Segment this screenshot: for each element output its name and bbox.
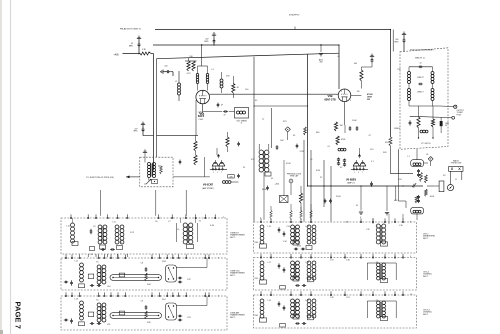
svg-text:V6 6CN7: V6 6CN7 xyxy=(203,184,214,187)
svg-text:LT? 40? DL: LT? 40? DL xyxy=(421,143,431,145)
svg-text:PHONO SW: PHONO SW xyxy=(451,163,462,165)
svg-text:SECT.: SECT. xyxy=(423,314,429,316)
svg-text:MFD: MFD xyxy=(204,41,209,43)
svg-text:6.8K: 6.8K xyxy=(316,170,321,172)
svg-text:220: 220 xyxy=(165,66,168,68)
svg-text:2.2M: 2.2M xyxy=(300,151,305,153)
svg-text:JWM 271 CL: JWM 271 CL xyxy=(415,58,425,60)
svg-text:1: 1 xyxy=(354,172,355,174)
svg-text:V6A: V6A xyxy=(200,113,205,116)
svg-text:+400: +400 xyxy=(114,55,120,57)
svg-text:470K: 470K xyxy=(286,163,291,165)
svg-text:2: 2 xyxy=(217,172,218,174)
svg-text:MFD: MFD xyxy=(134,131,139,133)
svg-text:JWM 2?: JWM 2? xyxy=(417,77,424,79)
svg-text:V6 6BE6: V6 6BE6 xyxy=(346,178,357,181)
svg-text:OSC: OSC xyxy=(199,119,204,121)
svg-text:2: 2 xyxy=(358,172,359,174)
svg-text:1MEG: 1MEG xyxy=(394,128,400,130)
svg-text:7: 7 xyxy=(221,172,222,174)
svg-text:47: 47 xyxy=(221,105,223,107)
svg-text:TL: TL xyxy=(240,123,242,125)
svg-text:3W: 3W xyxy=(367,99,370,101)
svg-text:100K: 100K xyxy=(352,120,357,122)
svg-text:V5B: V5B xyxy=(327,94,332,98)
svg-text:SECT.: SECT. xyxy=(230,275,236,277)
svg-text:6SN7 GTB: 6SN7 GTB xyxy=(324,100,336,102)
svg-text:SECT.: SECT. xyxy=(230,317,236,319)
svg-text:FM AD B.P.S SMG TL: FM AD B.P.S SMG TL xyxy=(120,27,142,30)
svg-text:(AW 372BP): (AW 372BP) xyxy=(202,187,214,190)
svg-text:MODULATOR ASSEMBLY: MODULATOR ASSEMBLY xyxy=(410,48,434,51)
svg-text:470K: 470K xyxy=(341,139,346,141)
svg-text:JWM L?: JWM L? xyxy=(417,92,424,94)
svg-text:PAGE 7: PAGE 7 xyxy=(13,302,22,329)
svg-text:SECT.: SECT. xyxy=(230,237,236,239)
svg-text:TRIM CAP: TRIM CAP xyxy=(290,175,299,178)
svg-text:AMP 21: AMP 21 xyxy=(347,182,355,185)
svg-text:100K: 100K xyxy=(430,196,435,198)
svg-text:680K: 680K xyxy=(262,189,267,191)
svg-text:065: 065 xyxy=(354,63,357,65)
svg-text:7: 7 xyxy=(362,172,363,174)
svg-text:B SUPPLY: B SUPPLY xyxy=(289,15,300,17)
svg-text:4.7K: 4.7K xyxy=(187,73,192,75)
svg-text:SECT.: SECT. xyxy=(423,238,429,240)
svg-text:MFD: MFD xyxy=(129,46,134,48)
svg-text:47: 47 xyxy=(223,115,225,117)
svg-text:510: 510 xyxy=(189,56,192,58)
svg-text:30: 30 xyxy=(445,125,447,127)
svg-text:MFD: MFD xyxy=(395,41,400,43)
svg-text:47000: 47000 xyxy=(367,93,373,96)
svg-text:TO JUNCTION OF PIN 8 (V4): TO JUNCTION OF PIN 8 (V4) xyxy=(86,177,114,179)
svg-text:390: 390 xyxy=(320,62,323,64)
svg-text:SECT.: SECT. xyxy=(423,276,429,278)
svg-text:S1B: S1B xyxy=(162,261,166,263)
svg-text:220K: 220K xyxy=(336,196,341,198)
svg-text:S1C: S1C xyxy=(162,299,166,301)
svg-text:10: 10 xyxy=(420,63,422,65)
svg-text:1: 1 xyxy=(213,172,214,174)
